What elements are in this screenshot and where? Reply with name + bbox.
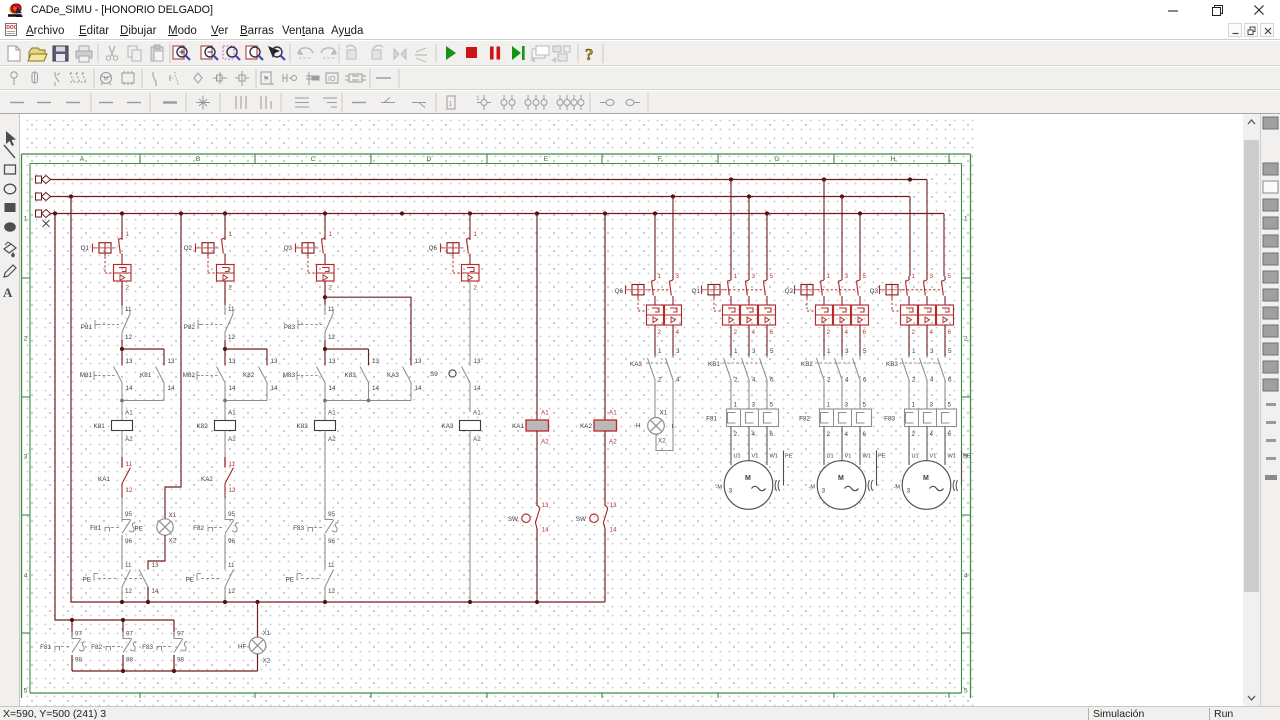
svg-text:K83: K83 bbox=[297, 423, 309, 430]
svg-text:A: A bbox=[80, 156, 85, 163]
svg-text:12: 12 bbox=[228, 588, 236, 595]
svg-text:2: 2 bbox=[827, 329, 831, 336]
svg-text:1: 1 bbox=[126, 231, 130, 238]
svg-text:-H: -H bbox=[634, 423, 641, 430]
svg-text:F81: F81 bbox=[40, 644, 51, 651]
svg-text:U1: U1 bbox=[912, 454, 919, 460]
svg-text:2: 2 bbox=[329, 285, 333, 292]
svg-text:V1: V1 bbox=[752, 454, 759, 460]
svg-text:1: 1 bbox=[964, 216, 968, 223]
svg-text:F82: F82 bbox=[799, 416, 810, 423]
svg-text:F83: F83 bbox=[884, 416, 895, 423]
svg-text:U1: U1 bbox=[827, 454, 834, 460]
svg-text:IO: IO bbox=[328, 76, 336, 83]
svg-text:96: 96 bbox=[328, 538, 336, 545]
svg-text:A1: A1 bbox=[228, 410, 236, 417]
svg-text:PE: PE bbox=[963, 454, 971, 460]
svg-text:KB3: KB3 bbox=[886, 361, 898, 368]
svg-text:4: 4 bbox=[845, 377, 849, 384]
svg-text:KA2: KA2 bbox=[201, 476, 213, 483]
svg-text:5: 5 bbox=[24, 688, 28, 695]
svg-text:2: 2 bbox=[658, 329, 662, 336]
svg-text:4: 4 bbox=[676, 377, 680, 384]
svg-text:1: 1 bbox=[734, 402, 738, 409]
svg-text:11: 11 bbox=[125, 562, 132, 569]
svg-text:1: 1 bbox=[229, 231, 233, 238]
svg-text:A1: A1 bbox=[541, 410, 549, 417]
svg-text:Q6: Q6 bbox=[429, 245, 438, 252]
svg-text:3: 3 bbox=[930, 273, 934, 280]
svg-text:3: 3 bbox=[752, 402, 756, 409]
svg-text:13: 13 bbox=[542, 502, 550, 509]
svg-text:5: 5 bbox=[770, 273, 774, 280]
svg-text:M83: M83 bbox=[283, 372, 296, 379]
svg-text:M: M bbox=[104, 77, 109, 83]
svg-text:1: 1 bbox=[24, 216, 28, 223]
svg-text:13: 13 bbox=[474, 358, 482, 365]
svg-text:X1: X1 bbox=[263, 630, 271, 637]
svg-text:X2: X2 bbox=[658, 438, 666, 445]
svg-text:5: 5 bbox=[948, 273, 952, 280]
svg-text:2: 2 bbox=[734, 431, 738, 438]
svg-text:12: 12 bbox=[328, 588, 336, 595]
svg-text:6: 6 bbox=[948, 329, 952, 336]
svg-text:A2: A2 bbox=[473, 436, 481, 443]
svg-text:A2: A2 bbox=[125, 436, 133, 443]
svg-text:1: 1 bbox=[658, 348, 662, 355]
svg-text:HF: HF bbox=[238, 644, 247, 651]
svg-text:A2: A2 bbox=[328, 436, 336, 443]
svg-text:3: 3 bbox=[845, 402, 849, 409]
svg-text:13: 13 bbox=[152, 562, 160, 569]
svg-text:2: 2 bbox=[24, 336, 28, 343]
svg-text:12: 12 bbox=[328, 334, 336, 341]
svg-text:2: 2 bbox=[912, 377, 916, 384]
svg-text:W1: W1 bbox=[948, 454, 956, 460]
svg-text:W1: W1 bbox=[863, 454, 871, 460]
svg-text:Q1: Q1 bbox=[81, 245, 90, 252]
svg-text:4: 4 bbox=[845, 329, 849, 336]
svg-text:S9: S9 bbox=[430, 371, 438, 378]
svg-text:1: 1 bbox=[329, 231, 333, 238]
svg-text:96: 96 bbox=[228, 538, 236, 545]
svg-text:K83: K83 bbox=[345, 372, 357, 379]
svg-text:Q3: Q3 bbox=[284, 245, 293, 252]
svg-text:2: 2 bbox=[734, 329, 738, 336]
svg-text:3: 3 bbox=[752, 273, 756, 280]
svg-text:95: 95 bbox=[328, 511, 336, 518]
svg-text:14: 14 bbox=[271, 385, 279, 392]
svg-text:KA1: KA1 bbox=[512, 423, 524, 430]
svg-text:2: 2 bbox=[827, 431, 831, 438]
svg-text:14: 14 bbox=[474, 385, 482, 392]
svg-text:KA1: KA1 bbox=[98, 476, 110, 483]
svg-text:KA3: KA3 bbox=[442, 423, 454, 430]
svg-text:1: 1 bbox=[474, 231, 478, 238]
svg-text:C: C bbox=[311, 156, 316, 163]
svg-text:1: 1 bbox=[827, 402, 831, 409]
svg-text:1: 1 bbox=[912, 402, 916, 409]
svg-text:11: 11 bbox=[229, 461, 236, 468]
svg-text:5: 5 bbox=[948, 402, 952, 409]
svg-text:M82: M82 bbox=[183, 372, 196, 379]
svg-text:12: 12 bbox=[126, 487, 134, 494]
svg-text:K82: K82 bbox=[197, 423, 209, 430]
svg-text:3: 3 bbox=[907, 488, 911, 495]
svg-text:D: D bbox=[427, 156, 432, 163]
svg-text:14: 14 bbox=[329, 385, 337, 392]
svg-text:A: A bbox=[3, 285, 13, 300]
svg-text:14: 14 bbox=[229, 385, 237, 392]
svg-text:3: 3 bbox=[845, 348, 849, 355]
svg-text:3: 3 bbox=[822, 488, 826, 495]
svg-text:6: 6 bbox=[863, 377, 867, 384]
svg-text:W1: W1 bbox=[770, 454, 778, 460]
svg-text:3: 3 bbox=[24, 454, 28, 461]
svg-text:11: 11 bbox=[125, 306, 132, 313]
svg-text:4: 4 bbox=[964, 573, 968, 580]
svg-text:X1: X1 bbox=[169, 512, 177, 519]
svg-text:2: 2 bbox=[964, 336, 968, 343]
svg-text:X2: X2 bbox=[169, 538, 177, 545]
svg-text:SW: SW bbox=[576, 516, 586, 523]
svg-text:⚑: ⚑ bbox=[263, 75, 269, 83]
svg-text:A1: A1 bbox=[609, 410, 617, 417]
svg-text:5: 5 bbox=[863, 348, 867, 355]
svg-text:F83: F83 bbox=[142, 644, 153, 651]
svg-text:11: 11 bbox=[228, 562, 235, 569]
svg-text:97: 97 bbox=[126, 631, 134, 638]
svg-text:3: 3 bbox=[752, 348, 756, 355]
svg-text:97: 97 bbox=[177, 631, 185, 638]
svg-text:11: 11 bbox=[126, 461, 133, 468]
svg-text:12: 12 bbox=[125, 334, 133, 341]
svg-text:11: 11 bbox=[328, 306, 335, 313]
svg-text:13: 13 bbox=[610, 502, 618, 509]
svg-text:F81: F81 bbox=[706, 416, 717, 423]
svg-text:11: 11 bbox=[228, 306, 235, 313]
svg-text:A2: A2 bbox=[228, 436, 236, 443]
svg-text:13: 13 bbox=[415, 358, 423, 365]
svg-text:E: E bbox=[544, 156, 549, 163]
svg-text:F83: F83 bbox=[293, 525, 304, 532]
svg-text:14: 14 bbox=[415, 385, 423, 392]
svg-text:14: 14 bbox=[542, 527, 550, 534]
svg-text:Q1: Q1 bbox=[692, 288, 701, 295]
svg-text:V1: V1 bbox=[845, 454, 852, 460]
svg-text:98: 98 bbox=[177, 657, 185, 664]
svg-text:KA3: KA3 bbox=[387, 372, 399, 379]
svg-text:6: 6 bbox=[770, 377, 774, 384]
svg-text:PE: PE bbox=[83, 577, 91, 584]
svg-text:4: 4 bbox=[676, 329, 680, 336]
svg-text:PE: PE bbox=[878, 454, 886, 460]
svg-text:M81: M81 bbox=[80, 372, 93, 379]
svg-text:KA3: KA3 bbox=[630, 361, 642, 368]
svg-text:PE: PE bbox=[135, 526, 143, 533]
svg-text:F82: F82 bbox=[91, 644, 102, 651]
svg-text:2: 2 bbox=[827, 377, 831, 384]
svg-text:14: 14 bbox=[152, 588, 160, 595]
svg-text:6: 6 bbox=[863, 431, 867, 438]
svg-text:SW: SW bbox=[508, 516, 518, 523]
svg-text:1: 1 bbox=[827, 273, 831, 280]
svg-text:-M: -M bbox=[808, 485, 815, 491]
svg-text:PE: PE bbox=[186, 577, 194, 584]
svg-text:F81: F81 bbox=[90, 525, 101, 532]
svg-text:95: 95 bbox=[125, 511, 133, 518]
svg-text:6: 6 bbox=[863, 329, 867, 336]
svg-text:3: 3 bbox=[845, 273, 849, 280]
svg-text:6: 6 bbox=[770, 329, 774, 336]
svg-text:1: 1 bbox=[912, 348, 916, 355]
svg-text:K82: K82 bbox=[243, 372, 255, 379]
svg-text:14: 14 bbox=[168, 385, 176, 392]
svg-text:2: 2 bbox=[474, 285, 478, 292]
svg-text:2: 2 bbox=[658, 377, 662, 384]
svg-text:6: 6 bbox=[948, 431, 952, 438]
svg-text:14: 14 bbox=[126, 385, 134, 392]
svg-text:13: 13 bbox=[271, 358, 279, 365]
svg-text:M: M bbox=[838, 475, 844, 482]
svg-text:KB1: KB1 bbox=[708, 361, 720, 368]
svg-text:12: 12 bbox=[125, 588, 133, 595]
svg-text:M: M bbox=[923, 475, 929, 482]
svg-text:PE: PE bbox=[286, 577, 294, 584]
svg-text:G: G bbox=[774, 156, 779, 163]
svg-text:96: 96 bbox=[125, 538, 133, 545]
svg-text:4: 4 bbox=[930, 431, 934, 438]
svg-text:P82: P82 bbox=[184, 324, 196, 331]
svg-text:98: 98 bbox=[126, 657, 134, 664]
svg-text:11: 11 bbox=[328, 562, 335, 569]
svg-text:-M: -M bbox=[893, 485, 900, 491]
svg-text:13: 13 bbox=[372, 358, 380, 365]
svg-text:6: 6 bbox=[948, 377, 952, 384]
svg-text:1: 1 bbox=[912, 273, 916, 280]
svg-text:13: 13 bbox=[126, 358, 134, 365]
svg-text:14: 14 bbox=[610, 527, 618, 534]
svg-text:14: 14 bbox=[372, 385, 380, 392]
svg-text:2: 2 bbox=[126, 285, 130, 292]
svg-text:4: 4 bbox=[930, 329, 934, 336]
svg-text:U1: U1 bbox=[734, 454, 741, 460]
svg-text:4: 4 bbox=[930, 377, 934, 384]
svg-text:1: 1 bbox=[827, 348, 831, 355]
svg-text:?: ? bbox=[585, 45, 594, 64]
svg-text:X2: X2 bbox=[263, 658, 271, 665]
svg-text:4: 4 bbox=[752, 329, 756, 336]
svg-text:5: 5 bbox=[948, 348, 952, 355]
svg-text:A1: A1 bbox=[328, 410, 336, 417]
svg-text:12: 12 bbox=[228, 334, 236, 341]
svg-text:4: 4 bbox=[752, 377, 756, 384]
svg-text:2: 2 bbox=[912, 329, 916, 336]
svg-text:Q2: Q2 bbox=[184, 245, 193, 252]
svg-text:4: 4 bbox=[24, 573, 28, 580]
svg-text:KA2: KA2 bbox=[580, 423, 592, 430]
svg-text:F82: F82 bbox=[193, 525, 204, 532]
svg-text:K81: K81 bbox=[94, 423, 106, 430]
svg-text:M: M bbox=[745, 475, 751, 482]
svg-text:F: F bbox=[658, 156, 662, 163]
svg-text:A2: A2 bbox=[541, 439, 549, 446]
svg-text:3: 3 bbox=[676, 273, 680, 280]
svg-text:V1: V1 bbox=[930, 454, 937, 460]
svg-text:1: 1 bbox=[449, 101, 453, 108]
svg-text:P83: P83 bbox=[284, 324, 296, 331]
svg-text:H: H bbox=[891, 156, 896, 163]
svg-text:97: 97 bbox=[75, 631, 83, 638]
svg-text:1: 1 bbox=[734, 273, 738, 280]
svg-text:5: 5 bbox=[964, 688, 968, 695]
svg-text:4: 4 bbox=[752, 431, 756, 438]
svg-text:98: 98 bbox=[75, 657, 83, 664]
svg-text:Q6: Q6 bbox=[615, 288, 624, 295]
svg-text:1: 1 bbox=[476, 95, 480, 102]
svg-text:X1: X1 bbox=[660, 410, 668, 417]
svg-text:13: 13 bbox=[168, 358, 176, 365]
svg-text:1: 1 bbox=[734, 348, 738, 355]
svg-text:6: 6 bbox=[770, 431, 774, 438]
svg-text:1: 1 bbox=[658, 273, 662, 280]
svg-text:B: B bbox=[196, 156, 201, 163]
svg-text:KB2: KB2 bbox=[801, 361, 813, 368]
svg-text:13: 13 bbox=[229, 358, 237, 365]
svg-text:5: 5 bbox=[863, 273, 867, 280]
svg-text:3: 3 bbox=[930, 348, 934, 355]
svg-text:3: 3 bbox=[729, 488, 733, 495]
svg-text:A1: A1 bbox=[125, 410, 133, 417]
svg-text:-M: -M bbox=[715, 485, 722, 491]
svg-text:2: 2 bbox=[229, 285, 233, 292]
svg-text:A1: A1 bbox=[473, 410, 481, 417]
svg-text:DOC: DOC bbox=[6, 25, 18, 31]
svg-text:Q3: Q3 bbox=[870, 288, 879, 295]
svg-text:Q2: Q2 bbox=[785, 288, 794, 295]
svg-text:2: 2 bbox=[734, 377, 738, 384]
svg-text:95: 95 bbox=[228, 511, 236, 518]
svg-text:3: 3 bbox=[676, 348, 680, 355]
svg-text:A2: A2 bbox=[609, 439, 617, 446]
svg-text:P81: P81 bbox=[81, 324, 93, 331]
svg-text:5: 5 bbox=[863, 402, 867, 409]
svg-text:PE: PE bbox=[785, 454, 793, 460]
svg-text:12: 12 bbox=[229, 487, 237, 494]
svg-text:5: 5 bbox=[770, 348, 774, 355]
svg-text:13: 13 bbox=[329, 358, 337, 365]
svg-text:3: 3 bbox=[930, 402, 934, 409]
svg-text:2: 2 bbox=[912, 431, 916, 438]
svg-text:4: 4 bbox=[845, 431, 849, 438]
svg-text:5: 5 bbox=[770, 402, 774, 409]
svg-text:K81: K81 bbox=[140, 372, 152, 379]
